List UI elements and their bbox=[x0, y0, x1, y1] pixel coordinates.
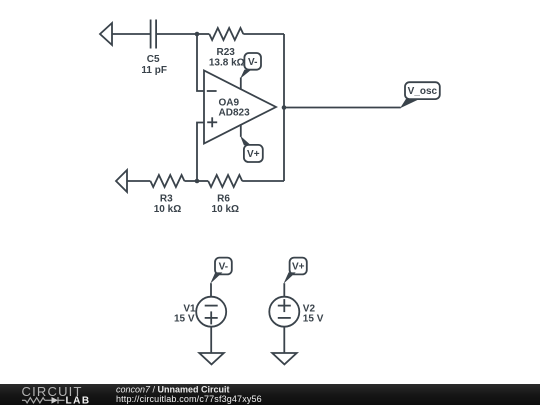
svg-text:R6: R6 bbox=[217, 194, 230, 205]
wire: V1 bottom to ground bbox=[210, 326, 212, 353]
ground (under V1) bbox=[199, 353, 224, 364]
svg-text:10 kΩ: 10 kΩ bbox=[212, 204, 239, 215]
voltage source V1, 15 V bbox=[174, 297, 226, 327]
resistor R3, 10 kOhm bbox=[150, 175, 184, 215]
input port P2 (bottom left) bbox=[116, 170, 127, 192]
svg-text:R23: R23 bbox=[217, 47, 236, 58]
wire: R23 right lead to feedback corner bbox=[243, 33, 284, 35]
voltage source V2, 15 V bbox=[269, 297, 323, 327]
CircuitLab logo schematic motif (wire-resistor-diode) bbox=[22, 397, 65, 404]
svg-text:V-: V- bbox=[219, 262, 228, 273]
wire: op-amp negative supply pin bbox=[240, 78, 242, 90]
wire: feedback right vertical rail bbox=[283, 34, 285, 181]
CircuitLab logo wordmark CIRCUIT bbox=[22, 384, 83, 399]
wire: bottom node up to non-inverting input bbox=[197, 123, 204, 182]
wire: V1 positive terminal up bbox=[210, 283, 212, 297]
wire: node A to R23 left lead bbox=[197, 33, 209, 35]
wire: port P2 to R3 left lead bbox=[127, 180, 150, 182]
input port P1 (top left) bbox=[100, 23, 112, 45]
svg-text:V-: V- bbox=[248, 57, 257, 68]
node C (junction dot R3/R6/non-inverting) bbox=[195, 179, 200, 184]
node A (junction dot at C5 / R23 / inverting input) bbox=[195, 32, 200, 37]
net flag V+ (on V2) bbox=[284, 258, 307, 284]
wire: output to V_osc flag bbox=[284, 107, 401, 109]
svg-text:11 pF: 11 pF bbox=[141, 65, 167, 76]
wire: V2 bottom to ground bbox=[283, 326, 285, 353]
wire: C5 right plate to node A bbox=[156, 33, 197, 35]
wire: R3 right lead to node C bbox=[184, 180, 197, 182]
wire: port P1 to C5 left plate bbox=[112, 33, 150, 35]
resistor R6, 10 kOhm bbox=[208, 175, 242, 215]
footer bar bbox=[0, 384, 540, 405]
wire: node A down to inverting input bbox=[197, 34, 204, 91]
net flag V- (op-amp negative supply) bbox=[240, 53, 261, 79]
resistor R23, 13.8 kOhm bbox=[209, 28, 245, 69]
wire: op-amp positive supply pin bbox=[240, 124, 242, 137]
wire: node C to R6 left lead bbox=[197, 180, 208, 182]
svg-text:R3: R3 bbox=[160, 194, 173, 205]
svg-text:http://circuitlab.com/c77sf3g4: http://circuitlab.com/c77sf3g47xy56 bbox=[116, 394, 262, 404]
svg-text:V+: V+ bbox=[292, 262, 305, 273]
wire: R6 right lead to right rail bbox=[242, 180, 284, 182]
svg-text:V+: V+ bbox=[247, 149, 260, 160]
net flag V+ (op-amp positive supply) bbox=[240, 136, 263, 162]
CircuitLab logo wordmark LAB bbox=[66, 396, 91, 405]
svg-text:15 V: 15 V bbox=[174, 314, 195, 325]
op-amp OA9 (AD823) bbox=[204, 71, 276, 144]
net flag V_osc (output) bbox=[400, 82, 440, 108]
svg-text:AD823: AD823 bbox=[219, 107, 251, 118]
net flag V- (on V1) bbox=[210, 258, 232, 284]
svg-text:LAB: LAB bbox=[66, 396, 91, 405]
capacitor C5, 11 pF bbox=[141, 20, 167, 77]
footer text: author / circuit title bbox=[116, 385, 262, 404]
svg-text:V_osc: V_osc bbox=[408, 86, 438, 97]
wire: V2 positive terminal up bbox=[283, 283, 285, 297]
svg-text:10 kΩ: 10 kΩ bbox=[154, 204, 181, 215]
svg-text:C5: C5 bbox=[147, 54, 160, 65]
ground (under V2) bbox=[272, 353, 297, 364]
node B (junction dot at op-amp output) bbox=[282, 105, 287, 110]
svg-text:15 V: 15 V bbox=[303, 314, 324, 325]
svg-text:13.8 kΩ: 13.8 kΩ bbox=[209, 58, 245, 69]
